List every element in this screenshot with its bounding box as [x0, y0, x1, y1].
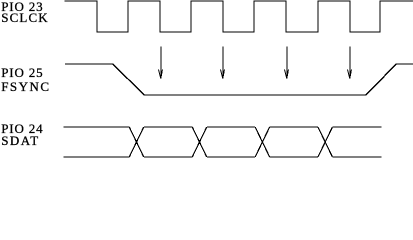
signal SDAT bus bottom rail — [64, 156, 382, 158]
SDAT crossover X1 — [129, 127, 144, 157]
SDAT crossover X4 — [318, 127, 333, 157]
arrow 2 (sample point) — [221, 47, 225, 79]
svg-text:FSYNC: FSYNC — [1, 79, 50, 94]
signal SCLCK clock waveform — [65, 1, 413, 32]
SDAT crossover X2 — [192, 127, 207, 157]
signal SDAT bus top rail — [64, 126, 382, 128]
svg-text:SCLCK: SCLCK — [1, 10, 49, 25]
arrow 1 (sample point) — [159, 47, 163, 79]
arrow 4 (sample point) — [348, 47, 352, 79]
arrow 3 (sample point) — [285, 47, 289, 79]
signal FSYNC waveform — [65, 64, 413, 95]
svg-text:SDAT: SDAT — [1, 133, 40, 148]
SDAT crossover X3 — [255, 127, 270, 157]
svg-text:PIO 25: PIO 25 — [1, 65, 43, 80]
